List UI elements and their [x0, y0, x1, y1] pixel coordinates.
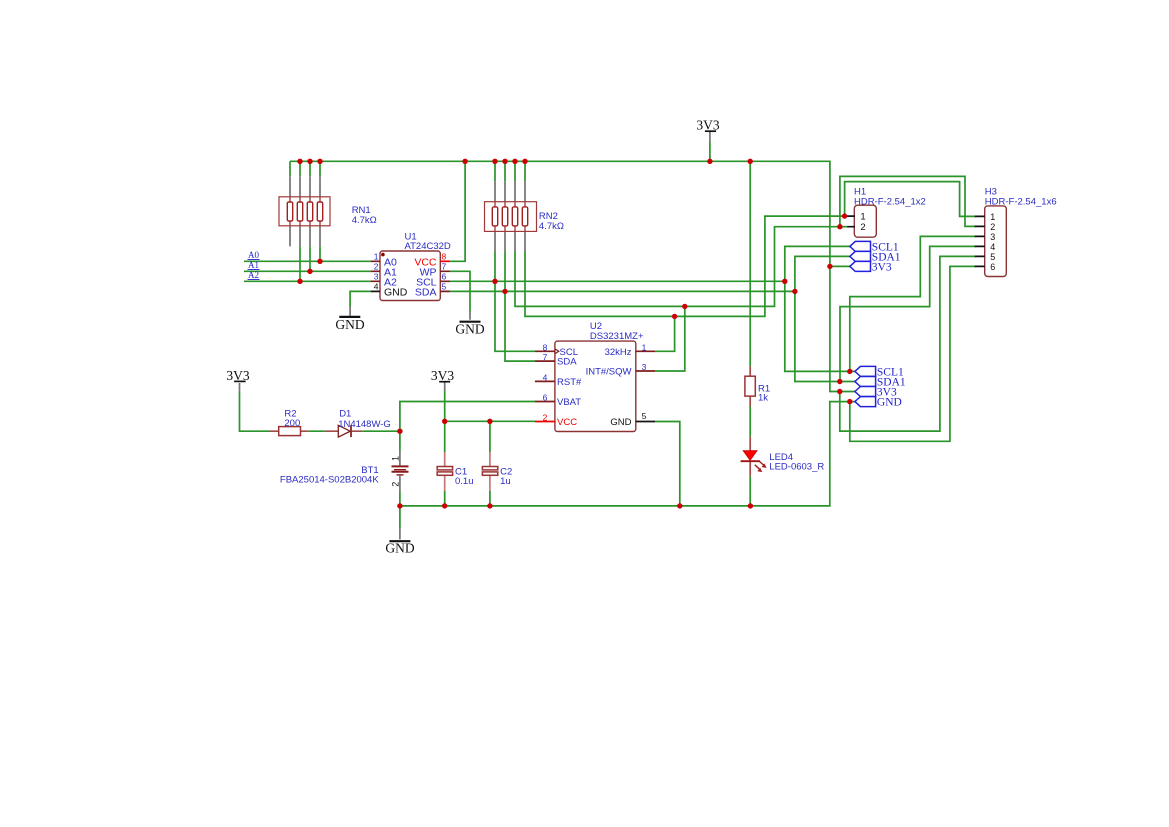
- svg-text:2: 2: [860, 222, 865, 233]
- svg-text:200: 200: [284, 418, 300, 429]
- wire RN1 top risers: [290, 161, 320, 176]
- RN2 gray pins: [495, 181, 525, 251]
- wire A2: [244, 280, 371, 282]
- svg-text:DS3231MZ+: DS3231MZ+: [590, 331, 644, 342]
- svg-text:1: 1: [860, 211, 865, 222]
- ground symbol bottom: [385, 541, 414, 556]
- battery BT1: [280, 456, 409, 487]
- net port SCL1 upper: [850, 241, 899, 253]
- svg-text:4: 4: [990, 242, 995, 252]
- resistor network RN1: [279, 197, 377, 226]
- net port GND lower: [855, 397, 902, 409]
- svg-text:7: 7: [442, 262, 447, 272]
- junction dot 3V3 upper label: [827, 264, 832, 269]
- RN1 gray pins: [290, 176, 320, 246]
- svg-text:HDR-F-2.54_1x6: HDR-F-2.54_1x6: [985, 196, 1057, 207]
- wire 32kHz net RN2-4 to H1 pin1: [525, 216, 847, 316]
- svg-text:4: 4: [374, 282, 379, 292]
- wire H3 pin3 to SCL1 label: [850, 236, 976, 371]
- svg-text:3: 3: [990, 232, 995, 242]
- svg-text:4.7kΩ: 4.7kΩ: [539, 221, 564, 232]
- wire mid 3V3 stub: [444, 391, 446, 421]
- svg-text:RST#: RST#: [557, 377, 582, 388]
- wire 3V3 upper label tap: [830, 265, 850, 267]
- svg-text:8: 8: [442, 252, 447, 262]
- power stubs gray: [240, 132, 710, 391]
- svg-text:3V3: 3V3: [431, 368, 454, 383]
- wire SDA1 net vertical and lower row: [795, 256, 855, 381]
- wire RN1 bottom leads to A2 A1 A0: [300, 246, 320, 281]
- svg-text:3: 3: [642, 362, 647, 372]
- wire LED4 to GND bus: [749, 476, 751, 506]
- svg-text:D1: D1: [339, 409, 351, 420]
- svg-text:GND: GND: [335, 317, 364, 332]
- svg-text:3V3: 3V3: [872, 261, 892, 273]
- svg-text:AT24C32D: AT24C32D: [405, 241, 451, 252]
- svg-text:5: 5: [442, 282, 447, 292]
- battery pin leads gray: [399, 451, 401, 492]
- net port SDA1 lower: [855, 376, 906, 388]
- ground symbol under U1: [335, 317, 364, 332]
- svg-text:A0: A0: [248, 250, 259, 260]
- wire VBAT row and drop to battery: [400, 402, 535, 451]
- wire H3 pin4 to SDA1 label: [840, 246, 976, 381]
- svg-text:3: 3: [374, 272, 379, 282]
- wire U1 GND pin4 to ground: [350, 291, 371, 306]
- wire left 3V3 to R2: [240, 391, 270, 431]
- header H3 HDR-F-2.54_1x6: [975, 186, 1057, 276]
- svg-text:1: 1: [642, 342, 647, 352]
- junction dots H1: [837, 213, 847, 229]
- power flag 3V3 mid: [431, 368, 454, 383]
- svg-text:2: 2: [374, 262, 379, 272]
- svg-text:INT#/SQW: INT#/SQW: [586, 367, 632, 378]
- net port SCL1 lower: [855, 366, 904, 378]
- svg-text:LED-0603_R: LED-0603_R: [769, 462, 824, 473]
- capacitor C2: [482, 452, 512, 491]
- svg-text:0.1u: 0.1u: [455, 476, 474, 487]
- net port SDA1 upper: [850, 251, 901, 263]
- wire A0: [244, 260, 371, 262]
- svg-text:VCC: VCC: [557, 417, 577, 428]
- resistor R2: [269, 409, 308, 436]
- svg-text:1k: 1k: [758, 392, 768, 403]
- svg-text:GND: GND: [610, 417, 631, 428]
- wire RN2-2 down to U2 SDA: [505, 252, 535, 362]
- svg-text:A2: A2: [248, 270, 259, 280]
- wire VCC row: [445, 420, 535, 422]
- junction dot D1 output: [397, 429, 402, 434]
- svg-text:GND: GND: [877, 397, 902, 409]
- svg-text:SDA: SDA: [557, 357, 577, 368]
- wire H3 pin5 to 3V3 label: [840, 256, 976, 431]
- wire R2 to D1: [308, 430, 325, 432]
- wire GND bottom bus up to lower GND label: [400, 402, 855, 529]
- svg-text:HDR-F-2.54_1x2: HDR-F-2.54_1x2: [854, 196, 926, 207]
- wire RN2-1 down to U2 SCL: [495, 252, 535, 352]
- wire battery minus to GND bus: [399, 491, 401, 506]
- svg-text:7: 7: [543, 352, 548, 362]
- svg-text:1u: 1u: [500, 476, 511, 487]
- net label A1: [248, 260, 260, 270]
- svg-text:3V3: 3V3: [696, 118, 719, 133]
- wire 3V3 to R1: [749, 161, 751, 366]
- wire SCL net: [450, 280, 785, 282]
- junction dots 3V3 top bus: [297, 159, 753, 164]
- svg-text:5: 5: [642, 411, 647, 421]
- wire R1 to LED4: [749, 407, 751, 437]
- junction dots lower net ports: [837, 369, 852, 405]
- wire INT#/SQW net RN2-3 to H1 pin2: [515, 227, 847, 307]
- wire RN2 top risers: [495, 161, 525, 181]
- svg-text:GND: GND: [455, 321, 484, 336]
- ground symbol for WP: [455, 321, 484, 336]
- wire 3V3 top flag stub: [709, 141, 711, 161]
- LED LED4: [741, 437, 825, 477]
- wire U1 VCC pin8 riser to 3V3: [450, 161, 465, 261]
- svg-text:32kHz: 32kHz: [605, 347, 632, 358]
- svg-text:4.7kΩ: 4.7kΩ: [352, 215, 377, 226]
- wire U2 pin5 GND drop: [655, 422, 680, 506]
- net label A2: [248, 270, 260, 280]
- wire U2 pin3 INT riser: [655, 306, 685, 371]
- svg-text:6: 6: [442, 272, 447, 282]
- svg-text:3V3: 3V3: [226, 368, 249, 383]
- wire H3 pin6 to GND label: [850, 266, 976, 441]
- junction dots INT and 32kHz nets: [672, 304, 688, 319]
- diode D1 1N4148W-G: [325, 409, 391, 438]
- resistor R1: [745, 366, 770, 406]
- svg-text:2: 2: [543, 413, 548, 423]
- svg-text:FBA25014-S02B2004K: FBA25014-S02B2004K: [280, 474, 379, 485]
- svg-text:5: 5: [990, 252, 995, 262]
- power flag 3V3 top: [696, 118, 719, 133]
- svg-text:2: 2: [390, 482, 400, 487]
- svg-text:8: 8: [543, 342, 548, 352]
- wire U1 WP pin7 to ground: [450, 271, 470, 311]
- wire C2 verticals: [489, 421, 491, 506]
- svg-text:6: 6: [543, 393, 548, 403]
- svg-text:VBAT: VBAT: [557, 397, 581, 408]
- wire H1 pin1 to H3 pin1: [845, 182, 976, 217]
- junction dots VCC row: [442, 419, 493, 424]
- net port 3V3 upper: [850, 261, 892, 273]
- svg-text:1: 1: [990, 212, 995, 222]
- header H1 HDR-F-2.54_1x2: [847, 186, 926, 237]
- net label A0: [248, 250, 260, 260]
- svg-text:1N4148W-G: 1N4148W-G: [338, 419, 391, 430]
- wire 3V3 net top bus and 3V3 vertical to lower 3V3 label: [290, 161, 855, 391]
- junction dots SCL SDA nets: [492, 279, 797, 295]
- wire SDA net: [450, 290, 795, 292]
- svg-text:GND: GND: [384, 286, 408, 298]
- junction dots GND bottom bus: [397, 503, 753, 508]
- svg-text:A1: A1: [248, 260, 259, 270]
- wire SCL1 net vertical and lower row: [785, 246, 855, 371]
- wire C1 verticals: [444, 421, 446, 506]
- junction dots A0 A1 A2: [297, 259, 322, 284]
- wire D1 to BAT node: [362, 430, 400, 432]
- wire A1: [244, 270, 371, 272]
- wire U2 pin1 32kHz riser: [655, 316, 675, 351]
- ground stubs gray: [350, 307, 470, 540]
- svg-text:4: 4: [543, 373, 548, 383]
- svg-text:GND: GND: [385, 541, 414, 556]
- capacitor C1: [437, 452, 473, 491]
- IC U1 AT24C32D: [371, 231, 451, 300]
- svg-text:6: 6: [990, 262, 995, 272]
- resistor network RN2: [485, 202, 564, 232]
- svg-text:1: 1: [390, 456, 400, 461]
- net port 3V3 lower: [855, 386, 897, 398]
- wire H1 pin2 to H3 pin2: [840, 176, 976, 226]
- svg-text:1: 1: [374, 252, 379, 262]
- IC U2 DS3231MZ+: [535, 321, 655, 432]
- power flag 3V3 left: [226, 368, 249, 383]
- svg-text:SDA: SDA: [415, 286, 437, 298]
- svg-text:2: 2: [990, 222, 995, 232]
